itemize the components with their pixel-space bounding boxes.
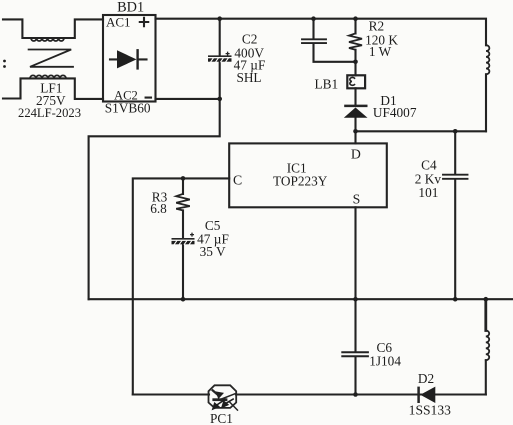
svg-text:1SS133: 1SS133 [409,402,452,417]
svg-text:C: C [233,173,242,188]
svg-text:D2: D2 [418,371,434,386]
svg-text:BD1: BD1 [117,0,144,16]
svg-text:6.8: 6.8 [150,201,167,216]
svg-text:101: 101 [418,185,438,200]
svg-text:C4: C4 [421,157,437,172]
svg-text:1 W: 1 W [369,44,392,59]
svg-text:UF4007: UF4007 [373,105,417,120]
svg-text:TOP223Y: TOP223Y [273,174,328,189]
svg-text:S: S [353,192,361,207]
svg-text:LB1: LB1 [314,77,338,92]
svg-text:R2: R2 [369,19,385,34]
svg-text:224LF-2023: 224LF-2023 [18,106,81,120]
svg-text:S1VB60: S1VB60 [105,100,151,115]
svg-text:SHL: SHL [236,70,261,85]
svg-text:AC1: AC1 [106,15,131,30]
svg-text:D: D [351,147,361,162]
svg-text:1J104: 1J104 [369,354,401,369]
svg-text:PC1: PC1 [210,411,233,425]
svg-text:35 V: 35 V [200,244,226,259]
